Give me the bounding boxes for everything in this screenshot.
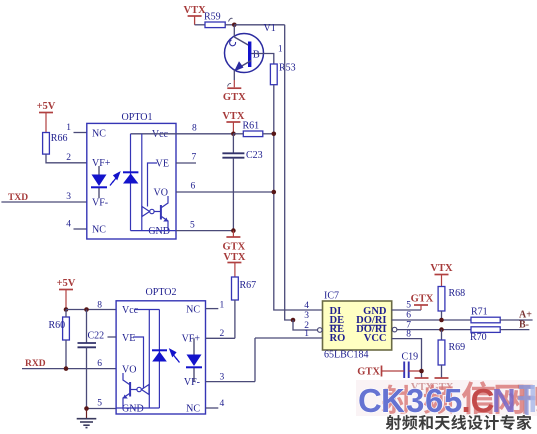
svg-text:R53: R53	[279, 63, 296, 74]
wire	[263, 133, 274, 135]
svg-text:GTX: GTX	[357, 367, 380, 378]
OPTO2 inner bottom rail	[116, 407, 159, 409]
svg-text:6: 6	[406, 311, 411, 321]
node junction C19/VCC	[419, 369, 424, 374]
svg-text:VE: VE	[156, 159, 169, 170]
node junction at R59/V1	[232, 23, 237, 28]
wire	[225, 24, 234, 26]
svg-text:6: 6	[97, 359, 102, 369]
power VTX (at R61)	[226, 121, 240, 123]
wire	[441, 311, 443, 320]
svg-text:NC: NC	[186, 403, 200, 414]
wire RXD to pin6	[22, 368, 116, 370]
svg-text:5: 5	[97, 399, 102, 409]
watermark slogan 射频和天线设计专家	[386, 415, 401, 430]
svg-text:GTX: GTX	[411, 294, 434, 305]
svg-text:1: 1	[220, 301, 225, 311]
OPTO2 LED	[193, 338, 195, 354]
svg-text:6: 6	[425, 382, 443, 419]
node junction C22 top	[84, 307, 89, 312]
svg-text:VF-: VF-	[184, 377, 200, 388]
wire (GTX stub)	[233, 80, 235, 87]
svg-text:C: C	[358, 382, 382, 419]
optocoupler OPTO2 box	[116, 301, 205, 414]
svg-text:RO: RO	[330, 333, 346, 344]
power VTX (top)	[188, 15, 202, 17]
wire	[195, 24, 205, 26]
wire pin6 DO/RI	[392, 319, 471, 321]
watermark red chinese characters	[382, 385, 411, 414]
svg-text:GTX: GTX	[223, 92, 246, 103]
resistor R67	[232, 277, 239, 300]
watermark haze background	[356, 380, 537, 416]
watermark blue char right edge	[518, 384, 537, 415]
svg-text:R60: R60	[49, 320, 66, 331]
svg-text:4: 4	[220, 399, 225, 409]
svg-text:R69: R69	[449, 342, 466, 353]
svg-text:VO: VO	[154, 188, 168, 199]
svg-text:8: 8	[406, 330, 411, 340]
OPTO1 VE internal wire	[148, 163, 158, 207]
power GTX (under C23)	[232, 231, 234, 237]
optocoupler OPTO1 box	[87, 123, 176, 239]
svg-text:GND: GND	[122, 404, 144, 415]
pin 7 stub OPTO2 VE	[108, 336, 117, 338]
OPTO2 VE internal wire	[134, 337, 144, 388]
OPTO2 output transistor	[129, 382, 131, 397]
OPTO1 LED	[98, 166, 100, 175]
wire DE-RE tie	[293, 320, 318, 330]
svg-text:VCC: VCC	[364, 333, 387, 344]
svg-text:C19: C19	[402, 352, 419, 363]
svg-text:VTX: VTX	[430, 263, 453, 274]
svg-text:R68: R68	[449, 288, 466, 299]
svg-text:NC: NC	[92, 225, 106, 236]
pin 8 wire OPTO1 to VTX node	[131, 133, 234, 135]
node junction C22/ground	[84, 406, 89, 411]
svg-text:+5V: +5V	[57, 278, 76, 289]
svg-text:R67: R67	[240, 280, 257, 291]
pin 3 stub OPTO2	[206, 381, 256, 383]
OPTO2 inner rail left	[148, 310, 150, 409]
svg-text:NC: NC	[92, 129, 106, 140]
OPTO1 inner bottom rail	[131, 230, 177, 232]
svg-text:8: 8	[97, 301, 102, 311]
svg-text:N: N	[492, 382, 516, 419]
OPTO2 inverter	[141, 385, 149, 395]
OPTO1 inner rail right	[141, 134, 143, 231]
wire pin5 OPTO2	[87, 408, 117, 410]
node junction pin5/C23/GTX	[231, 228, 236, 233]
svg-text:OPTO2: OPTO2	[146, 287, 177, 298]
power GTX (under V1)	[227, 87, 241, 89]
resistor R70	[471, 327, 500, 333]
transistor V1	[225, 34, 264, 73]
wire riser R53 to DI	[274, 85, 323, 310]
node junction VO/riser	[272, 190, 277, 195]
wire	[233, 133, 243, 135]
svg-text:VF+: VF+	[182, 334, 201, 345]
svg-text:OPTO1: OPTO1	[122, 112, 153, 123]
svg-text:2: 2	[220, 329, 225, 339]
node junction R68/pin6	[439, 318, 444, 323]
power VTX (above R68)	[435, 274, 449, 276]
wire R66 to pin2	[46, 154, 87, 163]
svg-text:VE: VE	[122, 333, 135, 344]
svg-text:65LBC184: 65LBC184	[324, 350, 368, 361]
resistor R66	[43, 133, 50, 155]
power VTX (below C19 node)	[421, 371, 423, 378]
svg-text:2: 2	[66, 153, 71, 163]
OPTO1 photodiode	[123, 171, 138, 173]
OPTO1 light arrows	[110, 173, 120, 186]
node junction R69/pin7	[439, 327, 444, 332]
wire riser V1 to DE	[285, 25, 293, 320]
OPTO1 inner rail left	[130, 134, 132, 231]
power +5V (OPTO2)	[59, 289, 73, 291]
pin 7 bubble	[392, 327, 397, 332]
wire OPTO2 pin3 riser to RO	[254, 338, 256, 382]
svg-text:C23: C23	[246, 150, 263, 161]
pin 2 stub OPTO2	[206, 337, 235, 339]
svg-text:VTX: VTX	[223, 252, 246, 263]
pin 1 stub OPTO1	[74, 132, 87, 134]
pin 4 stub OPTO2	[206, 407, 219, 409]
svg-text:7: 7	[192, 153, 197, 163]
svg-text:8: 8	[192, 124, 197, 134]
pin 4 stub OPTO1	[74, 228, 87, 230]
net marker 2	[228, 83, 232, 86]
node junction DE/RE tie	[291, 318, 296, 323]
svg-text:VF+: VF+	[92, 158, 111, 169]
svg-text:R71: R71	[471, 307, 488, 318]
wire to A+	[500, 319, 532, 321]
svg-text:5: 5	[190, 221, 195, 231]
resistor R53	[270, 64, 277, 85]
OPTO2 light arrows	[170, 350, 180, 363]
svg-text:4: 4	[304, 301, 309, 311]
wire pin8 OPTO2	[66, 309, 159, 311]
svg-text:VTX: VTX	[222, 111, 245, 122]
svg-text:GTX: GTX	[223, 242, 246, 253]
node junction +5V/pin8	[64, 307, 69, 312]
svg-text:1: 1	[304, 329, 309, 339]
wire TXD to pin3	[1, 201, 86, 203]
svg-text:GND: GND	[148, 226, 170, 237]
resistor R68	[438, 287, 445, 312]
wire pin8 VCC	[392, 339, 422, 371]
svg-text:V1: V1	[264, 23, 276, 34]
svg-text:R66: R66	[51, 133, 68, 144]
svg-text:3: 3	[220, 373, 225, 383]
OPTO2 photodiode	[152, 349, 167, 351]
svg-text:IC7: IC7	[324, 291, 339, 302]
pin 7 stub OPTO1	[176, 162, 196, 164]
wire base to R53	[251, 54, 273, 65]
wire to B-	[500, 329, 529, 331]
svg-text:VTX: VTX	[184, 5, 207, 16]
resistor R60	[63, 317, 70, 340]
svg-text:3: 3	[304, 311, 309, 321]
wire	[234, 24, 284, 26]
ground (earth) symbol	[86, 409, 88, 419]
wire	[233, 70, 235, 81]
svg-text:+5V: +5V	[37, 101, 56, 112]
OPTO1 output transistor	[160, 205, 162, 220]
svg-text:R70: R70	[470, 332, 487, 343]
resistor R59	[205, 22, 225, 28]
node junction RXD/R60	[64, 366, 69, 371]
svg-text:5: 5	[444, 382, 462, 419]
pin 5 wire OPTO1 GND	[176, 230, 233, 232]
svg-text:1: 1	[278, 44, 283, 54]
wire RO	[255, 337, 323, 339]
IC IC7 65LBC184 box	[323, 301, 392, 350]
net marker	[229, 18, 233, 21]
capacitor C22	[86, 310, 88, 344]
svg-text:Vcc: Vcc	[152, 129, 169, 140]
svg-text:Vcc: Vcc	[122, 305, 139, 316]
resistor R69	[438, 340, 445, 365]
pin 6 wire OPTO1 VO	[176, 191, 274, 193]
svg-text:3: 3	[406, 382, 424, 419]
svg-text:C22: C22	[88, 331, 105, 342]
OPTO1 inverter	[142, 207, 150, 217]
pin 1 stub OPTO2	[206, 308, 219, 310]
svg-text:.C: .C	[462, 382, 495, 419]
svg-text:B: B	[253, 50, 260, 61]
svg-text:6: 6	[191, 182, 196, 192]
power GTX (above pin5)	[420, 306, 422, 311]
wire	[441, 330, 443, 340]
svg-text:R59: R59	[204, 12, 221, 23]
power GTX (below R69)	[435, 377, 449, 379]
resistor R71	[471, 317, 500, 323]
pin 5 GND stub	[392, 309, 421, 311]
svg-text:RXD: RXD	[25, 359, 46, 369]
svg-text:1: 1	[66, 123, 71, 133]
svg-text:R61: R61	[243, 121, 260, 132]
capacitor C23	[232, 134, 234, 154]
svg-text:3: 3	[66, 192, 71, 202]
svg-text:4: 4	[66, 220, 71, 230]
OPTO2 inner top rail	[135, 309, 159, 311]
svg-text:B-: B-	[519, 319, 529, 330]
wire R69 to GTX	[441, 365, 443, 378]
svg-text:K: K	[381, 382, 405, 419]
power +5V (OPTO1)	[39, 112, 53, 114]
svg-text:VO: VO	[122, 365, 136, 376]
wire pin7 DO/RI	[397, 329, 471, 331]
svg-text:VF-: VF-	[92, 198, 108, 209]
node junction R61/riser	[272, 132, 277, 137]
resistor R61	[243, 131, 262, 137]
OPTO2 inner rail right	[158, 310, 160, 409]
node junction pin8/VTX/C23	[231, 132, 236, 137]
svg-text:NC: NC	[186, 304, 200, 315]
wire R67 to OPTO2 pin2	[234, 300, 236, 338]
